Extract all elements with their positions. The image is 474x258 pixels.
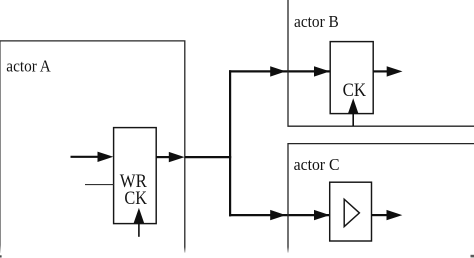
wire: feed from actor A boundary to fanout trunk — [185, 156, 231, 158]
fade at clipped bottom of boundary lines — [178, 247, 294, 254]
wire: data input arrow into actor A register — [71, 152, 114, 162]
wire: actor C output arrow — [372, 210, 403, 220]
register box in actor A — [114, 128, 157, 224]
wire: clock arrow into actor B register — [348, 98, 359, 126]
crop artifact mark bottom-right — [471, 255, 474, 258]
actor B boundary — [288, 0, 474, 126]
wire: fanout trunk vertical — [229, 70, 231, 216]
actor A boundary — [0, 41, 185, 253]
wire: WR input stub — [85, 184, 114, 186]
wire: branch to actor B with arrows — [229, 66, 330, 76]
buffer box in actor C — [330, 182, 372, 241]
wire: branch to actor C with arrows — [229, 210, 330, 220]
wire: actor B output arrow — [373, 66, 402, 76]
svg-text:actor A: actor A — [6, 57, 51, 76]
buffer triangle symbol — [344, 199, 359, 226]
svg-text:CK: CK — [343, 80, 367, 101]
crop artifact mark bottom-left — [0, 255, 2, 257]
svg-text:CK: CK — [124, 188, 147, 209]
svg-text:actor C: actor C — [294, 155, 340, 174]
actor C boundary — [288, 144, 474, 253]
register box in actor B — [330, 42, 373, 114]
svg-text:actor B: actor B — [294, 12, 339, 31]
wire: clock arrow into actor A register — [134, 208, 145, 237]
wire: actor A register output arrow to actor A boundary — [156, 152, 184, 162]
